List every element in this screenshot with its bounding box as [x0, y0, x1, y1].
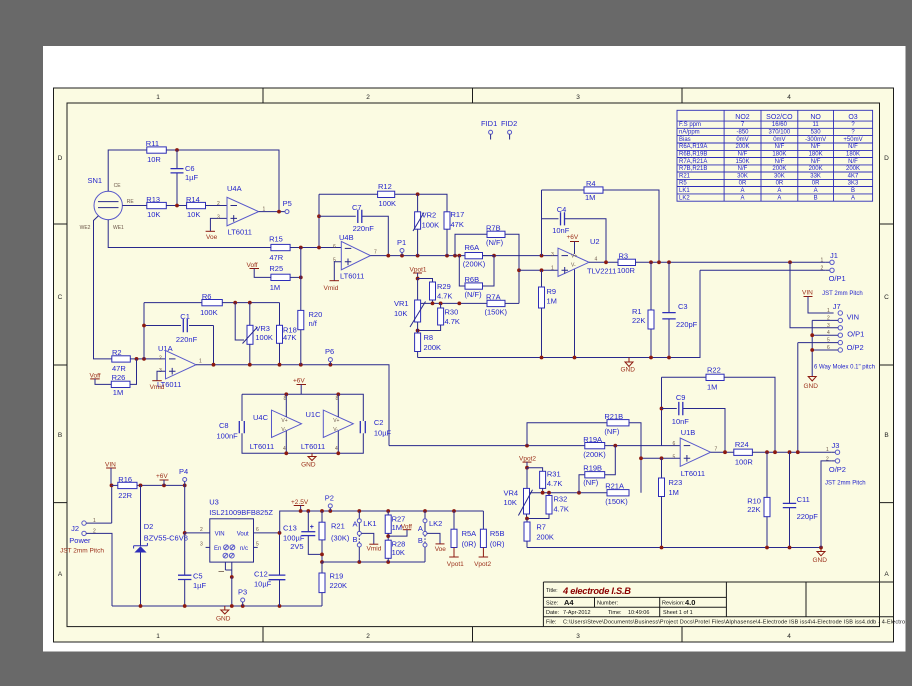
svg-text:R30: R30: [445, 308, 459, 317]
svg-text:R23: R23: [669, 478, 683, 487]
svg-text:D: D: [884, 155, 889, 162]
resistor R14: [186, 195, 206, 219]
svg-text:B: B: [353, 535, 358, 544]
svg-text:V-: V-: [333, 427, 338, 433]
svg-text:4: 4: [283, 446, 286, 452]
svg-text:2: 2: [366, 94, 370, 101]
svg-text:O/P1: O/P1: [829, 274, 846, 283]
svg-text:1: 1: [827, 308, 830, 314]
svg-text:2: 2: [826, 457, 829, 463]
svg-text:(30K): (30K): [331, 534, 350, 543]
svg-text:220pF: 220pF: [676, 320, 698, 329]
svg-text:A: A: [814, 188, 818, 194]
svg-text:B: B: [418, 536, 423, 545]
svg-text:nA/ppm: nA/ppm: [679, 130, 700, 136]
svg-text:P2: P2: [325, 494, 334, 503]
capacitor C1: [142, 312, 213, 344]
svg-text:4: 4: [787, 633, 791, 640]
capacitor C7: [317, 203, 388, 256]
svg-text:U4A: U4A: [227, 184, 242, 193]
svg-text:30K: 30K: [737, 173, 748, 179]
svg-text:180K: 180K: [772, 152, 786, 158]
svg-text:O/P2: O/P2: [847, 343, 864, 352]
svg-text:N/F: N/F: [848, 159, 858, 165]
wire U4A output to P5: [259, 211, 285, 213]
svg-text:(NF): (NF): [604, 427, 619, 436]
svg-text:Power: Power: [69, 536, 91, 545]
svg-text:R6A: R6A: [465, 243, 480, 252]
svg-text:200K: 200K: [772, 166, 786, 172]
resistor R19A: [583, 435, 661, 459]
jumper LK2: [418, 511, 442, 562]
svg-text:0R: 0R: [812, 181, 820, 187]
svg-text:R26: R26: [112, 373, 126, 382]
svg-text:A: A: [884, 571, 889, 578]
svg-text:SO2/CO: SO2/CO: [766, 114, 793, 121]
svg-text:C5: C5: [193, 572, 203, 581]
svg-text:220nF: 220nF: [176, 335, 198, 344]
svg-text:22K: 22K: [747, 505, 760, 514]
ground GND (J7): [804, 377, 819, 391]
svg-text:RE: RE: [127, 199, 135, 205]
capacitor C13 polarized: [283, 511, 322, 554]
trimmer VR1: [394, 279, 426, 328]
resistor R5B vertical: [479, 511, 505, 557]
svg-text:C: C: [58, 294, 63, 301]
svg-text:1M: 1M: [707, 383, 717, 392]
resistor R30: [418, 303, 460, 330]
op-amp U1A: [157, 344, 202, 389]
svg-text:C2: C2: [374, 418, 384, 427]
svg-text:(0R): (0R): [490, 540, 505, 549]
wire R3 to J1: [636, 261, 826, 263]
svg-text:1M: 1M: [669, 488, 679, 497]
resistor R32: [527, 493, 569, 519]
svg-text:N/F: N/F: [775, 144, 785, 150]
svg-text:1: 1: [826, 447, 829, 453]
svg-text:4.7K: 4.7K: [445, 317, 460, 326]
svg-text:C11: C11: [797, 495, 810, 504]
svg-text:N/F: N/F: [811, 144, 821, 150]
svg-text:JST 2mm Pitch: JST 2mm Pitch: [825, 481, 866, 487]
resistor R31: [527, 468, 562, 493]
svg-text:B: B: [58, 432, 62, 439]
svg-text:Number:: Number:: [597, 601, 619, 607]
pin6 input row (from U1A): [389, 445, 585, 447]
svg-text:(NF): (NF): [583, 478, 598, 487]
U4B feedback row R12: [319, 193, 378, 195]
svg-text:10K: 10K: [392, 548, 405, 557]
wire R25 to R20 vertical: [290, 276, 301, 278]
wire U1A pin3 to Vmid: [157, 371, 166, 381]
svg-text:22K: 22K: [632, 316, 645, 325]
ground GND (U2 stage): [621, 358, 636, 374]
svg-text:10:49:06: 10:49:06: [628, 610, 649, 616]
op-amp U4B: [333, 233, 377, 281]
svg-text:J7: J7: [833, 302, 841, 311]
wire J2 pin1 to VIN row: [86, 485, 112, 523]
svg-text:Vpot2: Vpot2: [519, 456, 536, 463]
sheet inner border: [67, 103, 880, 627]
power Voff (R25): [247, 262, 271, 277]
svg-text:VR1: VR1: [394, 299, 409, 308]
svg-text:VR4: VR4: [504, 489, 519, 498]
wire J3 pin2 to gnd: [821, 461, 831, 548]
svg-text:A: A: [418, 524, 423, 533]
zener diode D2: [134, 485, 188, 606]
capacitor C6: [171, 150, 199, 206]
resistor R18: [277, 303, 297, 365]
svg-text:VIN: VIN: [847, 313, 860, 322]
svg-text:N/F: N/F: [848, 144, 858, 150]
svg-text:n/c: n/c: [240, 546, 248, 552]
svg-text:Vpot1: Vpot1: [447, 561, 464, 568]
svg-text:150K: 150K: [735, 159, 749, 165]
svg-text:C8: C8: [219, 421, 229, 430]
svg-text:Time:: Time:: [608, 610, 622, 616]
svg-text:A: A: [851, 195, 855, 201]
wiper row VR4/R32: [530, 492, 608, 494]
svg-text:R21: R21: [331, 522, 345, 531]
svg-text:2V5: 2V5: [290, 542, 303, 551]
wire R13-R14: [166, 205, 186, 207]
node junction C6 bottom: [175, 204, 179, 208]
svg-text:0R: 0R: [776, 181, 784, 187]
svg-text:-300mV: -300mV: [805, 137, 826, 143]
wire U1B output / R24: [711, 451, 734, 453]
svg-text:30K: 30K: [774, 173, 785, 179]
zone ticks left: [54, 224, 68, 503]
wires J7 pins: [812, 320, 838, 376]
svg-text:(N/F): (N/F): [465, 290, 483, 299]
svg-text:WE2: WE2: [80, 225, 91, 231]
svg-text:R8: R8: [424, 333, 434, 342]
capacitor C4: [542, 205, 607, 262]
svg-text:(150K): (150K): [485, 308, 508, 317]
svg-text:C9: C9: [676, 393, 686, 402]
feedback vertical (R6/C1 left): [143, 303, 145, 359]
svg-text:Voe: Voe: [435, 546, 447, 553]
svg-text:4.7K: 4.7K: [437, 292, 452, 301]
svg-text:N/F: N/F: [738, 166, 748, 172]
svg-text:V-: V-: [281, 427, 286, 433]
resistor R3: [617, 252, 636, 276]
wire WE1 down and right to R15: [108, 220, 271, 248]
svg-text:B: B: [851, 188, 855, 194]
svg-text:530: 530: [811, 130, 822, 136]
pad P4: [179, 467, 188, 485]
svg-text:0mV: 0mV: [773, 137, 785, 143]
resistor R23 vertical: [659, 458, 683, 547]
svg-text:LK1: LK1: [679, 188, 690, 194]
resistor R28 vertical: [385, 540, 405, 563]
svg-text:R6B,R19B: R6B,R19B: [679, 152, 707, 158]
trimmer VR4: [504, 468, 533, 519]
fiducial FID1: [481, 119, 497, 139]
svg-text:Vout: Vout: [237, 532, 249, 538]
power Voff (R27/R28): [388, 524, 412, 537]
resistor R21A: [605, 482, 629, 507]
svg-text:F.S ppm: F.S ppm: [679, 122, 701, 128]
svg-text:B: B: [884, 432, 888, 439]
svg-text:Size:: Size:: [546, 601, 559, 607]
svg-text:1: 1: [156, 94, 160, 101]
svg-text:10µF: 10µF: [374, 429, 392, 438]
svg-text:+50mV: +50mV: [843, 137, 862, 143]
sensor SN1: [80, 176, 135, 231]
resistor R19B: [579, 446, 615, 493]
wire U4A pin3 to Voe: [210, 218, 227, 231]
svg-text:+2.5V: +2.5V: [291, 499, 309, 506]
wire R24 to J3: [752, 451, 831, 453]
svg-text:4 electrode I.S.B: 4 electrode I.S.B: [562, 586, 631, 596]
svg-text:File:: File:: [546, 620, 557, 626]
svg-text:D2: D2: [144, 522, 154, 531]
pad P1: [397, 238, 406, 256]
svg-text:R15: R15: [269, 235, 283, 244]
resistor R10 vertical: [747, 452, 770, 547]
power VIN (J7): [802, 290, 834, 314]
svg-text:33K: 33K: [810, 173, 821, 179]
sheet outer border: [54, 88, 894, 642]
wire R11 right to P5 vertical: [166, 150, 279, 212]
svg-text:JST 2mm Pitch: JST 2mm Pitch: [60, 548, 104, 555]
resistor R25: [269, 264, 290, 292]
svg-text:R29: R29: [437, 282, 451, 291]
svg-text:U3: U3: [209, 498, 219, 507]
capacitor C12: [254, 533, 285, 606]
wire R14 to U4A pin2: [206, 205, 228, 207]
pad P6: [325, 347, 334, 365]
svg-text:0mV: 0mV: [736, 137, 748, 143]
resistor R6A: [463, 243, 494, 269]
svg-text:2: 2: [159, 356, 162, 362]
svg-text:10K: 10K: [147, 210, 160, 219]
resistor R15: [269, 235, 290, 263]
resistor R6: [144, 292, 280, 317]
svg-text:JST 2mm Pitch: JST 2mm Pitch: [822, 291, 863, 297]
svg-text:1M: 1M: [113, 388, 123, 397]
svg-text:6 Way Molex 0.1" pitch: 6 Way Molex 0.1" pitch: [814, 365, 875, 371]
svg-text:1M: 1M: [270, 283, 280, 292]
svg-text:5: 5: [673, 455, 676, 461]
svg-text:NO2: NO2: [735, 114, 750, 121]
svg-text:1M: 1M: [585, 193, 595, 202]
svg-text:4K7: 4K7: [848, 173, 859, 179]
svg-text:N/F: N/F: [811, 159, 821, 165]
pad P2: [325, 494, 334, 512]
svg-text:4: 4: [787, 94, 791, 101]
svg-text:C3: C3: [678, 302, 688, 311]
svg-text:200K: 200K: [735, 144, 749, 150]
svg-text:7: 7: [374, 250, 377, 256]
svg-text:O/P1: O/P1: [847, 329, 864, 338]
svg-text:GND: GND: [301, 462, 316, 469]
wire pin6 row to U1B: [662, 445, 681, 447]
svg-text:C: C: [884, 294, 889, 301]
wire R15 to U4B pin6 node: [290, 194, 341, 247]
svg-text:U1B: U1B: [681, 428, 696, 437]
svg-text:6: 6: [256, 527, 259, 533]
resistor R1 vertical: [632, 262, 654, 357]
svg-text:10K: 10K: [187, 210, 200, 219]
svg-text:10µF: 10µF: [254, 580, 272, 589]
node junction C6 top: [175, 148, 179, 152]
svg-text:BZV55-C6V8: BZV55-C6V8: [144, 534, 188, 543]
svg-text:10K: 10K: [504, 498, 517, 507]
power Vmid (U4B): [324, 281, 340, 292]
svg-text:3: 3: [576, 94, 580, 101]
svg-text:Vmid: Vmid: [150, 384, 165, 391]
wiper row VR1/R30/R7A: [421, 302, 460, 304]
svg-text:2: 2: [217, 201, 220, 207]
svg-text:6: 6: [673, 441, 676, 447]
power Vpot2 (VR4): [519, 456, 536, 468]
svg-text:R7: R7: [536, 523, 546, 532]
svg-text:47K: 47K: [283, 333, 296, 342]
svg-text:U4C: U4C: [253, 413, 269, 422]
svg-text:3K3: 3K3: [848, 181, 859, 187]
svg-text:3: 3: [551, 252, 554, 258]
wire J1 pin2 to gnd row: [700, 269, 826, 271]
svg-text:7: 7: [715, 447, 718, 453]
resistor R26: [111, 373, 130, 397]
svg-text:R7A,R21A: R7A,R21A: [679, 159, 707, 165]
wire R7B/R7A junction to U2 pin1: [517, 268, 521, 272]
svg-text:1: 1: [156, 633, 160, 640]
power VIN (J2): [105, 462, 116, 486]
svg-text:A4: A4: [564, 598, 574, 607]
svg-text:Vpot1: Vpot1: [410, 267, 427, 274]
svg-text:6: 6: [333, 244, 336, 250]
svg-text:J1: J1: [830, 251, 838, 260]
connector J1: [821, 251, 863, 297]
svg-text:LT6011: LT6011: [250, 442, 274, 451]
svg-text:R20: R20: [309, 310, 323, 319]
svg-text:VIN: VIN: [802, 290, 813, 297]
svg-text:200K: 200K: [424, 343, 442, 352]
svg-text:En: En: [214, 546, 221, 552]
svg-text:R5B: R5B: [490, 529, 505, 538]
svg-text:1M: 1M: [547, 297, 557, 306]
svg-text:Title:: Title:: [546, 588, 558, 594]
svg-text:8: 8: [284, 396, 287, 402]
svg-text:N/F: N/F: [738, 152, 748, 158]
feedback vertical R4/C4 and R9: [541, 190, 543, 287]
svg-text:J3: J3: [832, 441, 840, 450]
svg-text:3: 3: [200, 542, 203, 548]
svg-text:A: A: [740, 195, 744, 201]
svg-text:R24: R24: [735, 440, 749, 449]
svg-text:NO: NO: [810, 114, 821, 121]
op-amp U4A: [217, 184, 266, 237]
pad P3: [238, 588, 247, 607]
title block: [543, 582, 905, 627]
svg-text:10R: 10R: [147, 155, 161, 164]
wire J7 pin5 to O/P2 net: [798, 343, 838, 453]
svg-text:4: 4: [335, 446, 338, 452]
svg-text:R31: R31: [547, 470, 561, 479]
svg-text:V-: V-: [571, 263, 576, 269]
svg-text:C6: C6: [185, 164, 195, 173]
svg-text:C13: C13: [283, 524, 297, 533]
regulator U3: [185, 498, 280, 607]
trimmer VR3: [233, 301, 273, 365]
svg-text:V+: V+: [281, 418, 287, 424]
svg-text:-850: -850: [736, 130, 749, 136]
power Vmid (U1A): [150, 381, 165, 391]
svg-text:100R: 100R: [617, 266, 636, 275]
svg-text:200K: 200K: [536, 533, 554, 542]
svg-text:200K: 200K: [809, 166, 823, 172]
svg-text:7-Apr-2012: 7-Apr-2012: [563, 610, 591, 616]
power +6V (U2): [567, 234, 580, 254]
svg-text:P1: P1: [397, 238, 406, 247]
svg-text:R12: R12: [378, 182, 392, 191]
svg-text:100K: 100K: [255, 333, 273, 342]
connector J2: [60, 518, 104, 555]
svg-text:180K: 180K: [846, 152, 860, 158]
svg-text:100R: 100R: [735, 458, 754, 467]
power +6V (buffers): [293, 378, 306, 395]
svg-text:0R: 0R: [739, 181, 747, 187]
svg-text:180K: 180K: [809, 152, 823, 158]
svg-text:V+: V+: [333, 418, 339, 424]
svg-text:+6V: +6V: [567, 234, 579, 241]
wire U1A output row: [196, 365, 389, 446]
svg-text:+6V: +6V: [156, 473, 168, 480]
ground GND (output stage): [813, 548, 828, 565]
capacitor C8: [217, 421, 245, 441]
wire RE row: [122, 205, 146, 207]
resistor R9 vertical: [539, 287, 557, 358]
wire Vout up to +2.5V row: [280, 511, 484, 533]
svg-text:R5A: R5A: [462, 529, 477, 538]
svg-text:LK1: LK1: [363, 519, 376, 528]
svg-text:P5: P5: [283, 199, 292, 208]
svg-text:4.0: 4.0: [685, 598, 695, 607]
bottom gnd row (power): [112, 605, 322, 607]
svg-text:47K: 47K: [451, 220, 464, 229]
svg-text:4: 4: [595, 257, 598, 263]
svg-text:P3: P3: [238, 588, 247, 597]
resistor R21B: [527, 412, 641, 493]
svg-text:2: 2: [200, 527, 203, 533]
svg-text:(200K): (200K): [583, 450, 606, 459]
svg-text:FID2: FID2: [501, 119, 517, 128]
capacitor C11: [783, 452, 818, 547]
svg-text:GND: GND: [804, 383, 819, 390]
svg-text:GND: GND: [216, 616, 231, 623]
wire U2 output / R3: [589, 261, 618, 263]
svg-text:Date:: Date:: [546, 610, 560, 616]
svg-text:2: 2: [366, 633, 370, 640]
svg-text:LK2: LK2: [679, 195, 690, 201]
svg-text:(N/F): (N/F): [486, 238, 504, 247]
svg-text:1: 1: [199, 359, 202, 365]
svg-text:Voe: Voe: [206, 234, 218, 241]
svg-text:A: A: [353, 520, 358, 529]
svg-text:GND: GND: [813, 557, 828, 564]
op-amp U1C: [301, 394, 353, 453]
svg-text:100K: 100K: [200, 308, 218, 317]
resistor R4: [542, 179, 660, 262]
svg-text:3: 3: [576, 633, 580, 640]
svg-text:SN1: SN1: [88, 176, 103, 185]
svg-text:A: A: [777, 188, 781, 194]
svg-text:Revision:: Revision:: [662, 601, 685, 607]
pad P5: [283, 199, 292, 214]
